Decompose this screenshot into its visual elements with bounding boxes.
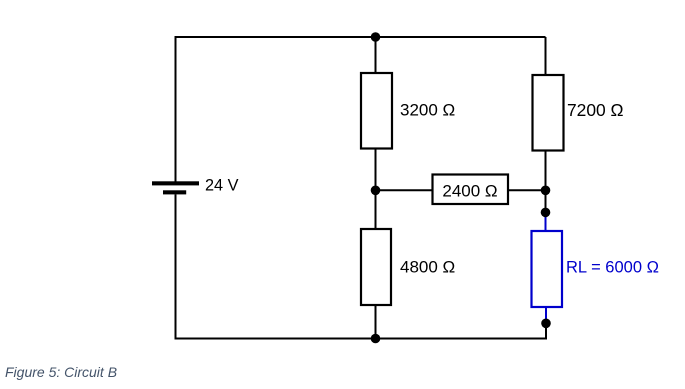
svg-text:4800 Ω: 4800 Ω: [400, 258, 455, 277]
svg-text:2400 Ω: 2400 Ω: [442, 182, 497, 201]
resistor 7200 ohm body: [533, 75, 564, 151]
wire black stub to bottom rail: [545, 323, 547, 339]
wire blue stub below RL: [545, 307, 547, 323]
resistor RL body: [532, 231, 563, 307]
wire bottom horizontal: [175, 338, 547, 340]
resistor 2400 ohm body: [433, 175, 509, 205]
battery V1 long plate (+): [152, 181, 199, 185]
wire right branch top stub: [545, 37, 547, 76]
svg-text:3200 Ω: 3200 Ω: [400, 101, 455, 120]
wire middle branch mid segment: [375, 149, 377, 231]
svg-text:Figure 5: Circuit B: Figure 5: Circuit B: [5, 364, 117, 380]
node junction bottom middle: [371, 334, 381, 344]
wire right branch mid segment: [545, 150, 547, 212]
wire top horizontal: [175, 36, 546, 38]
battery V1 short plate (-): [163, 190, 186, 194]
node junction middle branch mid: [371, 186, 381, 196]
wire mid horizontal left segment: [376, 189, 434, 191]
svg-text:24 V: 24 V: [205, 177, 239, 195]
node junction right branch at 2400: [541, 186, 551, 196]
wire left vertical lower: [175, 194, 177, 339]
svg-text:RL = 6000 Ω: RL = 6000 Ω: [566, 259, 659, 277]
node junction below RL: [541, 319, 551, 329]
wire blue stub to RL top: [545, 212, 547, 232]
node junction top middle: [371, 32, 381, 42]
wire middle branch bottom stub: [375, 305, 377, 339]
svg-text:7200 Ω: 7200 Ω: [567, 100, 624, 120]
node junction right branch above RL: [541, 208, 551, 218]
resistor 4800 ohm body: [361, 229, 391, 305]
wire mid horizontal right segment: [508, 189, 546, 191]
resistor 3200 ohm body: [361, 73, 392, 149]
wire middle branch top stub: [375, 37, 377, 74]
wire left vertical upper: [175, 36, 177, 182]
